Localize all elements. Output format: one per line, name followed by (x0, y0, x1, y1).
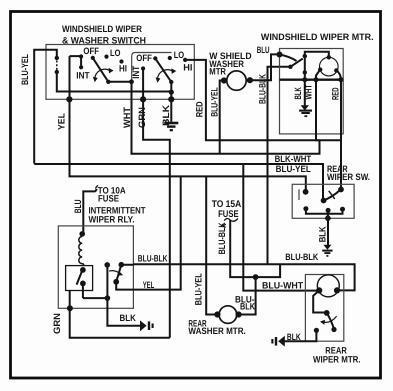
node M4 BLK contact (314, 328, 319, 333)
wire relay contact to link (82, 283, 84, 298)
wire S2 INT column to GRN (142, 69, 144, 100)
node S1 contact-WHT junction (129, 79, 134, 84)
S3 bottom link D-F (306, 209, 343, 214)
svg-text:BLK: BLK (287, 332, 301, 342)
svg-text:YEL: YEL (143, 280, 155, 290)
node YEL junction on box bottom (66, 96, 72, 102)
fuse F1 symbol (95, 185, 98, 188)
svg-text:GRN: GRN (137, 107, 147, 128)
node BLK junction on box bottom (168, 96, 174, 102)
node S3 A (303, 189, 309, 195)
svg-text:BLU-YEL: BLU-YEL (210, 87, 220, 117)
label: WINDSHIELD WIPER & WASHER SWITCH (62, 24, 146, 46)
node M2 cam right (334, 68, 338, 72)
node S3 B (338, 187, 344, 193)
label BLK-WHT link riser (316, 139, 320, 141)
node M4 park pivot (324, 310, 330, 316)
node M1 left terminal (221, 77, 227, 83)
node M2 park contact (288, 65, 292, 69)
svg-text:& WASHER SWITCH: & WASHER SWITCH (62, 36, 146, 46)
node S1 OFF (79, 54, 83, 58)
wire S1 contact to WHT column (108, 81, 131, 83)
M2 internal bridge wire (305, 52, 329, 58)
node S2 BLK mid junction (169, 90, 174, 95)
svg-text:INT: INT (131, 66, 141, 79)
svg-text:HI: HI (183, 62, 192, 72)
M2 switch arm b (290, 59, 302, 67)
svg-text:WHT: WHT (122, 107, 132, 128)
rear wiper motor M4 box (305, 275, 343, 342)
svg-text:WIPER MTR.: WIPER MTR. (313, 355, 361, 365)
svg-text:OFF: OFF (136, 53, 152, 63)
node M4 right terminal (334, 287, 340, 293)
M4 park arm (327, 313, 334, 329)
svg-text:BLU-BLK: BLU-BLK (257, 74, 267, 104)
wire BLU-YEL main run with drop to BLU-WHT (34, 164, 323, 291)
svg-text:WIPER SW.: WIPER SW. (327, 172, 370, 182)
svg-text:BLK: BLK (120, 313, 137, 323)
wire BLU-YEL rear washer feed (206, 176, 217, 314)
svg-text:RED: RED (331, 87, 341, 100)
rear motor M4 body (317, 275, 339, 297)
fuse F2 symbol (222, 219, 238, 228)
M2 cam right lead (336, 70, 341, 79)
ground G2 (motor BLK) (299, 105, 312, 116)
wire BLU-BLK bus: relay to rear wiper motor (121, 264, 354, 290)
node S2 HI (183, 58, 187, 62)
wire relay internal link (83, 265, 108, 298)
relay contact box (66, 266, 93, 291)
node M2 BLK terminal (302, 77, 307, 82)
node S3 pivot (321, 198, 327, 204)
node S3 F (340, 207, 345, 212)
svg-text:BLU: BLU (257, 45, 270, 55)
node M2 cam left (318, 67, 322, 71)
node S1 arm contact (106, 80, 110, 84)
M2 switch arm a (280, 55, 297, 62)
svg-text:BLU-WHT: BLU-WHT (262, 280, 304, 290)
M2 brush column (304, 56, 306, 80)
node K1 out pivot (119, 262, 125, 268)
node washer tap on fuse line (253, 274, 259, 280)
node S2 INT (141, 66, 145, 70)
ground G3 (relay BLK, sideways) (140, 320, 153, 331)
node S1 INT (79, 65, 83, 69)
node S3 ground junction (325, 215, 331, 221)
node S1 washer contact top (55, 56, 59, 60)
wire M1 left lead to WHT riser (220, 81, 224, 154)
label REAR WASHER MTR. (188, 318, 245, 336)
node S3 D (303, 206, 308, 211)
rotation arrow S2 (158, 70, 173, 79)
node S3 E (326, 208, 331, 213)
node M2 brush mid (303, 70, 307, 74)
svg-text:YEL: YEL (57, 113, 67, 130)
wire from washer contact to BLK node (57, 72, 172, 92)
M4 internal lead to park switch (313, 290, 327, 312)
wire BLK rear motor to ground (285, 330, 317, 341)
svg-text:BLU-BLK: BLU-BLK (217, 222, 227, 254)
rotation arrow K1 (109, 271, 120, 274)
label REAR WIPER SW. (327, 164, 370, 182)
label TO 15A FUSE (212, 199, 242, 220)
wiper motor M2 box (280, 49, 344, 134)
svg-text:BLK: BLK (317, 226, 327, 242)
wire S3 BLK to ground (327, 210, 329, 245)
ground G4 (rear switch) (322, 245, 332, 256)
wire RED: S2 HI out, down, across to wiper motor column (185, 60, 341, 140)
ground G1 (switch BLK) (164, 123, 178, 130)
node M4 left terminal (316, 287, 322, 293)
node S2 arm contact (169, 80, 173, 84)
wire M1 right lead BLU to motor (250, 54, 280, 80)
svg-text:BLK-WHT: BLK-WHT (275, 154, 312, 164)
node M3 right terminal (236, 311, 242, 317)
svg-text:WHT: WHT (304, 84, 314, 99)
wire BLU-BLK: motor to lower bus (268, 67, 291, 264)
svg-text:BLU-BLK: BLU-BLK (285, 252, 318, 262)
svg-text:GRN: GRN (52, 313, 62, 334)
switch arm S1 (93, 58, 109, 82)
node K1 contact a (80, 267, 86, 273)
wire YEL: switch to rear feed line (70, 56, 306, 192)
node S1 washer contact bottom (55, 70, 59, 74)
node M2 BLU input (277, 52, 283, 58)
svg-text:MTR: MTR (209, 67, 226, 77)
wire M3 right lead BLU-BLK (239, 277, 256, 314)
svg-text:INT: INT (76, 71, 90, 81)
svg-text:RED: RED (195, 101, 205, 117)
wire BLU-BLK 15A fuse feed (230, 220, 280, 277)
node GRN junction on box bottom (140, 96, 146, 102)
node S1 LO (104, 55, 108, 59)
node K1 arm contact (113, 279, 119, 285)
node M4 arm contact (331, 327, 336, 332)
switch S1 dashed contact (56, 61, 58, 71)
relay coil (79, 237, 84, 266)
node M2 RED terminal (338, 77, 343, 82)
wire BLU fuse to relay coil (83, 189, 96, 234)
node S1 arm pivot (91, 56, 95, 60)
label W SHIELD WASHER MTR (209, 51, 252, 76)
label REAR WIPER MTR. (313, 345, 361, 364)
S3 arm with cross (324, 191, 340, 201)
switch box S1 inner section (132, 53, 172, 96)
switch box S1 outline (WINDSHIELD WIPER & WASHER SWITCH) (46, 45, 194, 100)
svg-text:BLU-YEL: BLU-YEL (20, 54, 30, 85)
svg-text:LO: LO (174, 50, 185, 60)
svg-text:BLK: BLK (240, 302, 255, 312)
node M1 right terminal (247, 77, 253, 83)
node S2 OFF (153, 56, 157, 60)
label TO 10A FUSE (98, 185, 126, 203)
washer motor M1 body (227, 71, 246, 90)
label INTERMITTENT WIPER RLY. (89, 206, 146, 225)
svg-text:HI: HI (119, 64, 127, 74)
svg-text:WINDSHIELD WIPER MTR.: WINDSHIELD WIPER MTR. (261, 32, 374, 42)
wire WHT: S1 contact down, right, riser to washer motor (132, 82, 320, 154)
wire BLU-YEL (feed to switch) (34, 50, 57, 164)
svg-text:WASHER MTR.: WASHER MTR. (188, 326, 245, 336)
wire YEL relay arm to YEL line (116, 176, 181, 289)
rear wiper switch S3 box (292, 184, 354, 218)
wire S2 contact to BLK junction (170, 82, 172, 99)
node K1 contact b (80, 281, 86, 287)
svg-text:WIPER RLY.: WIPER RLY. (89, 214, 135, 224)
relay K1 box (58, 226, 133, 308)
wire BLK to ground (switch) (170, 99, 172, 122)
svg-text:LO: LO (110, 48, 120, 58)
rotation arrow S1 (95, 69, 110, 78)
node S1 HI (119, 59, 123, 63)
S3 inner tick (298, 189, 300, 200)
node M2 WHT terminal (314, 77, 319, 82)
relay switch arm (116, 265, 121, 282)
svg-text:BLK: BLK (293, 87, 303, 100)
node GRN junction on relay box (67, 305, 73, 311)
wire GRN: switch down, jog, down to relay line (143, 99, 170, 337)
node M2 brush left (303, 54, 307, 58)
node M2 cam top (327, 55, 331, 59)
wire M2 WHT down to BLK-WHT link (315, 80, 317, 141)
svg-text:BLU-BLK: BLU-BLK (138, 253, 168, 263)
node M3 left terminal (214, 311, 220, 317)
relay contact arm (77, 271, 82, 284)
wire M2 BLK to ground (304, 80, 306, 106)
ground G5 (rear motor, sideways) (272, 336, 284, 347)
label BLU- BLK (rear washer) (235, 294, 255, 311)
svg-text:BLU-YEL: BLU-YEL (194, 273, 204, 305)
node K1 coil top (79, 231, 85, 237)
wire BLK relay to ground (107, 298, 140, 326)
node S2 LO (168, 56, 172, 60)
switch arm S2 (155, 58, 171, 82)
svg-text:BLU-YEL: BLU-YEL (276, 164, 312, 174)
rotation arrow M4 (323, 316, 337, 322)
wire relay to GRN bottom run (70, 291, 170, 338)
wire M2 RED down to rear wiper switch (340, 80, 342, 190)
node K1 arm column (104, 262, 110, 268)
M2 bottom bus (280, 79, 344, 81)
svg-text:BLU: BLU (73, 199, 83, 213)
svg-text:FUSE: FUSE (98, 194, 119, 204)
M2 cam left lead (316, 70, 320, 80)
rear washer motor M3 body (219, 306, 237, 324)
svg-text:WINDSHIELD WIPER: WINDSHIELD WIPER (62, 24, 142, 34)
svg-text:OFF: OFF (83, 46, 99, 56)
M2 park cam (320, 57, 339, 76)
node K1 link (105, 295, 111, 301)
wire OFF-INT link S1 (70, 56, 82, 67)
